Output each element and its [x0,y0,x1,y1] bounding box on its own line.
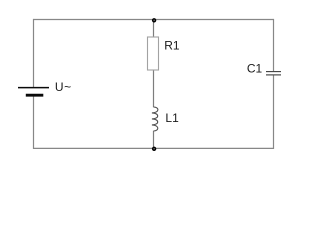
label R1 [164,38,180,52]
wire right lower [273,76,275,150]
label C1 [247,61,263,75]
svg-text:R1: R1 [164,38,180,52]
wire middle upper lead [153,20,155,38]
wire right upper [273,19,275,71]
inductor L1 [152,107,158,131]
label L1 [165,111,179,125]
junction node top [153,19,156,22]
svg-text:~: ~ [64,80,71,94]
capacitor C1 [266,72,281,75]
svg-text:U: U [55,80,64,94]
wire bottom [34,147,274,149]
wire left lower [33,96,35,149]
svg-text:C1: C1 [247,61,263,75]
label U [55,80,71,94]
wire top [34,19,274,21]
resistor R1 [148,37,159,70]
svg-text:L1: L1 [165,111,179,125]
wire middle lower lead [153,131,155,149]
wire left upper [33,19,35,87]
junction node bottom [153,147,156,150]
voltage source U [18,88,49,96]
wire middle between R1 and L1 [153,70,155,107]
